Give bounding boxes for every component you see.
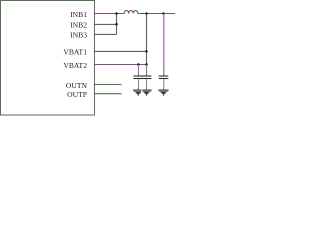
wire OUTP stub (95, 93, 121, 95)
capacitor C3 lead top (163, 14, 165, 76)
capacitor C2 lead top (146, 65, 148, 76)
wire VBAT1 (95, 50, 147, 52)
svg-text:INB3: INB3 (70, 31, 87, 40)
wire top net after inductor (138, 13, 175, 15)
capacitor C2 (142, 76, 152, 79)
junction dot INB1 tie (115, 12, 118, 15)
svg-text:OUTP: OUTP (67, 90, 87, 99)
junction dot VBAT2 C2 branch (145, 63, 148, 66)
pin marker VBAT2 (94, 64, 96, 66)
capacitor C1 lead top (138, 65, 140, 76)
junction dot top net C2 branch (145, 12, 148, 15)
ground pin tip C3 (163, 95, 164, 96)
inductor L1 (124, 11, 138, 14)
wire vertical top net to VBAT2 (146, 14, 148, 65)
ground for C2 (142, 88, 152, 95)
svg-text:VBAT2: VBAT2 (63, 61, 87, 70)
wire INB1 to inductor (95, 13, 124, 15)
ground pin tip C1 (138, 95, 139, 96)
junction dot INB2 tie (115, 23, 118, 26)
svg-text:OUTN: OUTN (66, 81, 88, 90)
capacitor C3 lead bottom (163, 79, 165, 89)
wire INB2 stub (95, 23, 117, 25)
capacitor C2 lead bottom (146, 79, 148, 89)
pin marker OUTP end (121, 93, 123, 95)
wire INB3 stub (95, 33, 117, 35)
pin marker OUTN (94, 84, 96, 86)
wire INB vertical tie (116, 14, 118, 35)
pin marker OUTN end (121, 84, 123, 86)
wire VBAT2 (95, 64, 147, 66)
pin marker INB1 (94, 13, 96, 15)
pin marker VBAT1 (94, 51, 96, 53)
ground for C1 (133, 88, 142, 95)
wire OUTN stub (95, 84, 121, 86)
capacitor C3 (159, 76, 169, 79)
svg-text:INB1: INB1 (70, 10, 87, 19)
pin marker OUTP (94, 93, 96, 95)
junction dot top net C3 branch (162, 12, 165, 15)
junction dot VBAT2 C1 branch (137, 63, 140, 66)
ground for C3 (158, 88, 168, 95)
junction dot VBAT1 join (145, 50, 148, 53)
pin marker INB2 (94, 24, 96, 26)
svg-text:VBAT1: VBAT1 (63, 48, 87, 57)
ground pin tip C2 (146, 95, 147, 96)
capacitor C1 (133, 76, 143, 79)
capacitor C1 lead bottom (138, 79, 140, 89)
IC body U1 (1, 1, 95, 116)
svg-text:INB2: INB2 (70, 21, 87, 30)
pin marker INB3 (94, 34, 96, 36)
